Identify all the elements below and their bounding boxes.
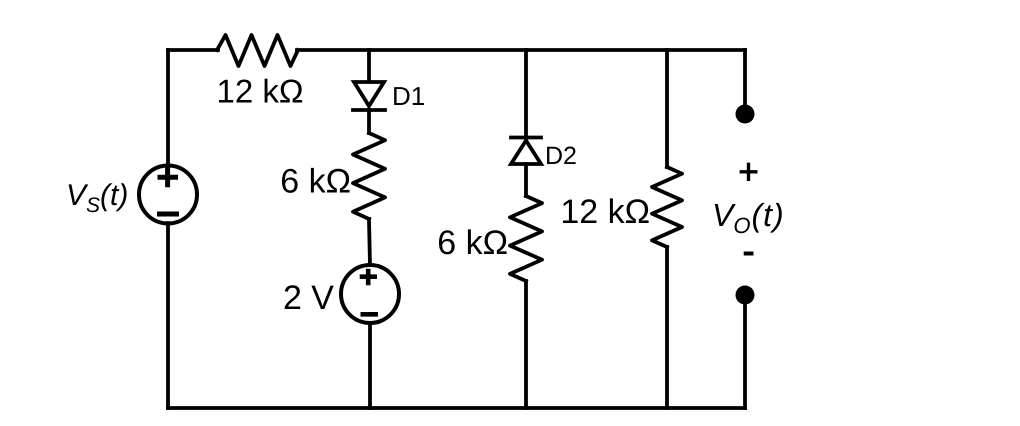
svg-text:VS(t): VS(t) xyxy=(66,179,128,217)
svg-text:6 kΩ: 6 kΩ xyxy=(280,163,351,201)
svg-text:6 kΩ: 6 kΩ xyxy=(437,224,508,262)
svg-text:D2: D2 xyxy=(545,142,577,170)
svg-text:D1: D1 xyxy=(392,81,425,111)
svg-text:VO(t): VO(t) xyxy=(712,197,785,238)
svg-text:12 kΩ: 12 kΩ xyxy=(560,193,650,231)
svg-text:12 kΩ: 12 kΩ xyxy=(217,73,304,110)
svg-text:2 V: 2 V xyxy=(283,279,334,317)
